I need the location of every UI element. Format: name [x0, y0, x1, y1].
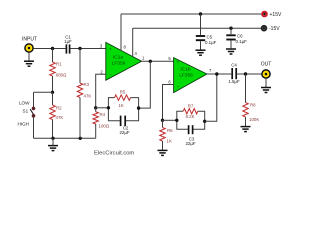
ground (input jack): [24, 52, 34, 66]
svg-text:C6: C6: [237, 34, 243, 39]
node input/R1: [51, 47, 54, 50]
node R1/R2/switch: [51, 91, 54, 94]
resistor R3: [77, 49, 91, 139]
node -15V/C6: [229, 27, 232, 30]
ground (R8): [241, 126, 251, 128]
node loop right/feedback: [137, 106, 140, 109]
svg-text:R1: R1: [56, 62, 62, 67]
wire pin 4 to -15V rail: [132, 28, 134, 57]
capacitor C4: [228, 62, 240, 84]
wire +15V rail: [121, 13, 262, 15]
resistor R4: [93, 108, 110, 139]
wire IC1a output to IC1b: [142, 60, 174, 62]
svg-text:+15V: +15V: [270, 12, 282, 18]
svg-text:1µF: 1µF: [64, 39, 72, 44]
svg-text:R5: R5: [120, 90, 126, 95]
wire pin 8 to +15V rail: [120, 14, 122, 51]
wire -15V rail: [133, 27, 262, 29]
svg-text:ElecCircuit.com: ElecCircuit.com: [94, 151, 134, 157]
capacitor C1: [64, 35, 72, 54]
capacitor C6: [226, 28, 247, 48]
node pin2/R4/R5: [94, 106, 97, 109]
wire feedback IC1a: [139, 61, 151, 108]
svg-text:8.2K: 8.2K: [185, 114, 194, 119]
resistor R5: [115, 90, 131, 109]
capacitor C3: [185, 125, 195, 146]
wire IC1b output rail: [207, 73, 231, 75]
svg-text:−: −: [177, 84, 180, 89]
wire feedback IC1b: [205, 74, 217, 121]
svg-text:HIGH: HIGH: [18, 121, 29, 126]
op-amp IC1a LF356: [106, 42, 142, 80]
wire pin6 node to R7 loop: [163, 119, 177, 121]
node R3/ground rail: [79, 137, 82, 140]
capacitor C5: [196, 14, 217, 50]
wire R1 node to switch: [34, 91, 53, 93]
svg-text:R7: R7: [188, 103, 194, 108]
wire R4 node to loop: [96, 107, 109, 109]
wire bottom ground rail: [34, 137, 96, 139]
svg-text:+: +: [109, 46, 112, 51]
svg-text:+: +: [177, 59, 180, 64]
svg-text:0.1µF: 0.1µF: [236, 39, 248, 44]
wire input rail: [33, 48, 65, 50]
resistor R7: [183, 103, 198, 119]
node output/feedback B: [215, 72, 218, 75]
node R2/ground rail: [51, 137, 54, 140]
svg-text:LOW: LOW: [19, 101, 30, 106]
node loop left/pin6 feed: [175, 119, 178, 122]
svg-text:C4: C4: [231, 62, 237, 67]
node C1/R3: [78, 47, 81, 50]
resistor R8: [243, 74, 260, 126]
node loop right/feedback B: [203, 120, 206, 123]
svg-text:1K: 1K: [167, 138, 172, 143]
svg-text:100Ω: 100Ω: [99, 124, 110, 129]
svg-text:INPUT: INPUT: [22, 37, 37, 43]
wire pin 6 to R6/R7 node: [163, 85, 174, 121]
svg-text:S1: S1: [23, 109, 29, 114]
ground (output jack): [261, 78, 271, 92]
op-amp IC1b LF356: [174, 58, 207, 93]
svg-text:100K: 100K: [249, 117, 259, 122]
node loop left/R4 feed: [107, 106, 110, 109]
output jack J-OUT: [262, 70, 270, 78]
ground (R6): [158, 149, 168, 151]
ground (bottom rail): [48, 138, 58, 150]
node pin6/R6/R7: [161, 119, 164, 122]
svg-text:1K: 1K: [118, 103, 123, 108]
svg-text:680Ω: 680Ω: [56, 73, 67, 78]
ground (C6): [226, 48, 236, 50]
wire feedback loop frame (R7/C3): [177, 111, 205, 129]
svg-text:−: −: [109, 72, 112, 77]
svg-text:47K: 47K: [56, 115, 64, 120]
resistor R2: [50, 92, 64, 138]
svg-text:IC1b: IC1b: [180, 66, 190, 72]
svg-text:1.5µF: 1.5µF: [228, 79, 240, 84]
resistor R6: [160, 120, 173, 150]
ground (C5): [196, 49, 206, 51]
svg-text:LF356: LF356: [112, 61, 126, 67]
svg-text:OUT: OUT: [261, 62, 272, 68]
svg-text:R2: R2: [56, 106, 62, 111]
svg-text:-15V: -15V: [269, 26, 280, 32]
node +15V/C5: [199, 12, 202, 15]
svg-text:R4: R4: [100, 112, 106, 117]
svg-text:IC1a: IC1a: [113, 55, 123, 61]
svg-text:C5: C5: [207, 34, 213, 39]
node C4/R8: [244, 72, 247, 75]
switch S1: [30, 92, 35, 138]
resistor R1: [50, 49, 67, 93]
svg-text:0.1µF: 0.1µF: [205, 40, 217, 45]
svg-text:R6: R6: [167, 128, 173, 133]
terminal +15V: [262, 12, 282, 18]
svg-text:22µF: 22µF: [185, 141, 195, 146]
input jack J-IN: [25, 44, 33, 52]
node IC1a output: [149, 60, 152, 63]
svg-text:22µF: 22µF: [119, 130, 129, 135]
terminal -15V: [262, 26, 281, 32]
wire feedback loop frame (R5/C2): [108, 98, 138, 121]
svg-text:R3: R3: [84, 82, 90, 87]
wire pin 2 to feedback node: [96, 74, 106, 108]
svg-text:R8: R8: [250, 103, 256, 108]
capacitor C2: [119, 116, 129, 135]
svg-text:LF356: LF356: [179, 72, 193, 78]
svg-text:47K: 47K: [84, 94, 92, 99]
